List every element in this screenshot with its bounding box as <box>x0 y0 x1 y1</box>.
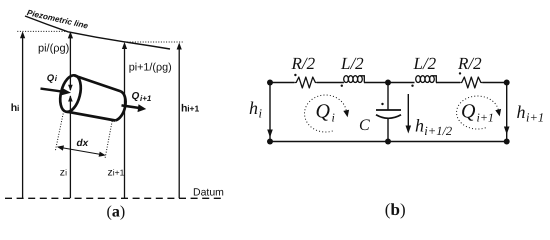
label R/2 left <box>291 54 316 73</box>
stray dot near L2 <box>411 85 413 87</box>
svg-text:h: h <box>249 98 258 118</box>
line zi+1 (pressure head line) <box>122 42 127 198</box>
svg-text:i+1: i+1 <box>140 94 152 103</box>
svg-text:i: i <box>332 110 335 124</box>
wire between R1 and L1 <box>317 82 344 84</box>
label Qi+1 <box>132 91 152 103</box>
label L/2 left <box>340 54 364 73</box>
label Piezometric line <box>26 8 89 30</box>
svg-text:h: h <box>517 102 526 122</box>
label h_i+1/2 <box>415 116 452 138</box>
head arrow hi+1/2 <box>406 94 412 134</box>
wire from L1 to node B <box>364 82 415 84</box>
label dx <box>77 138 89 149</box>
svg-text:h: h <box>415 116 424 136</box>
stray dot near R2 <box>459 72 461 74</box>
bottom wire <box>270 141 507 143</box>
node C bottom-right <box>504 139 510 145</box>
dotted level line right <box>125 41 184 43</box>
node C top-right <box>504 80 510 86</box>
label pi+1/(rho g) <box>129 62 172 74</box>
label Qi <box>47 73 58 84</box>
loop current Qi <box>305 95 350 132</box>
capacitor C wire upper <box>387 83 389 111</box>
label zi+1 <box>108 166 125 178</box>
svg-text:i+1/2: i+1/2 <box>424 124 452 138</box>
label h_i <box>249 98 263 121</box>
label C <box>359 117 370 134</box>
label L/2 right <box>413 54 437 73</box>
wire between L2 and R2 <box>436 82 460 84</box>
label pi/(rho g) <box>38 43 69 55</box>
node B bottom-middle <box>385 139 391 145</box>
dotted level line left <box>17 30 66 32</box>
svg-text:i+1: i+1 <box>526 110 544 124</box>
resistor R/2 right <box>460 77 482 88</box>
dimension line hi+1 <box>177 43 182 199</box>
svg-text:L/2: L/2 <box>413 54 437 73</box>
branch hi with arrow <box>267 83 273 142</box>
label Datum <box>193 187 224 199</box>
resistor R/2 left <box>295 77 317 88</box>
label zi <box>60 166 67 178</box>
svg-text:R/2: R/2 <box>291 54 316 73</box>
svg-text:R/2: R/2 <box>457 54 482 73</box>
svg-text:Q: Q <box>461 101 476 123</box>
line zi (pressure head line) <box>68 31 73 198</box>
svg-text:(a): (a) <box>107 203 126 220</box>
svg-text:pi/(ρg): pi/(ρg) <box>38 43 69 55</box>
svg-text:Q: Q <box>316 101 331 123</box>
projection dotted line right <box>105 121 112 159</box>
label R/2 right <box>457 54 482 73</box>
svg-text:Q: Q <box>132 91 140 102</box>
node A top-left <box>267 80 273 86</box>
svg-text:i: i <box>65 167 67 177</box>
label hi+1 <box>181 103 200 115</box>
datum line <box>5 197 222 199</box>
svg-text:i: i <box>55 74 58 83</box>
svg-text:i+1: i+1 <box>113 167 125 177</box>
svg-text:i+1: i+1 <box>477 110 494 124</box>
stray dot near R1 <box>294 74 296 76</box>
label h_i+1 <box>517 102 545 124</box>
inductor L/2 right <box>416 76 437 83</box>
svg-text:L/2: L/2 <box>340 54 364 73</box>
dimension line dx <box>57 145 106 156</box>
flow arrow Qi <box>41 88 72 95</box>
svg-text:dx: dx <box>77 138 89 149</box>
label Qi+1 loop <box>461 101 494 125</box>
svg-text:i: i <box>259 107 263 121</box>
svg-text:i: i <box>17 103 19 113</box>
piezometric line curve <box>25 16 170 49</box>
caption (a) <box>107 203 126 220</box>
node B top-middle <box>385 80 391 86</box>
capacitor C plates <box>376 110 401 118</box>
svg-text:pi+1/(ρg): pi+1/(ρg) <box>129 62 172 74</box>
svg-text:C: C <box>359 117 370 134</box>
wire from R2 to node C <box>482 82 506 84</box>
dimension line hi <box>20 31 25 198</box>
label Qi loop <box>316 101 335 125</box>
branch hi+1 with arrow <box>504 83 510 142</box>
svg-text:i+1: i+1 <box>187 104 199 114</box>
stray dot near capacitor <box>381 103 383 105</box>
caption (b) <box>385 200 406 219</box>
stray dot near L1 <box>341 85 343 87</box>
pipe cylinder body <box>57 73 126 120</box>
node A bottom-left <box>267 139 273 145</box>
wire top from node A to R1 <box>270 82 295 84</box>
label hi <box>11 102 20 114</box>
svg-text:(b): (b) <box>385 200 406 219</box>
flow arrow Qi+1 <box>122 104 147 112</box>
projection dotted line left <box>55 114 63 151</box>
loop current Qi+1 <box>457 96 502 129</box>
svg-text:Datum: Datum <box>193 187 224 199</box>
capacitor C wire lower <box>387 118 389 142</box>
svg-text:Q: Q <box>47 73 55 84</box>
inductor L/2 left <box>344 76 365 83</box>
